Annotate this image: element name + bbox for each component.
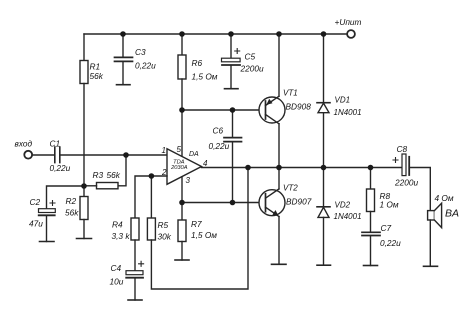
svg-text:C3: C3 — [135, 47, 146, 57]
node input wire — [32, 154, 54, 156]
wire VT1 base — [182, 109, 259, 111]
svg-text:DA: DA — [189, 151, 199, 158]
wire output rail — [202, 167, 403, 169]
wire pin2 — [135, 176, 167, 218]
resistor R2 — [80, 197, 88, 220]
svg-text:0,22u: 0,22u — [380, 238, 401, 248]
capacitor C6 — [224, 138, 242, 142]
resistor R1 — [80, 61, 88, 84]
svg-text:BD908: BD908 — [286, 101, 312, 111]
arrow VT1 emitter — [266, 99, 272, 105]
svg-text:R1: R1 — [90, 62, 101, 72]
svg-text:R2: R2 — [66, 196, 77, 206]
resistor R3 — [97, 183, 119, 189]
wire VD2 down — [323, 217, 325, 265]
wire C7 down — [370, 236, 372, 266]
wire node to R2 — [83, 186, 85, 197]
svg-text:56k: 56k — [65, 208, 79, 218]
ground R7 — [175, 259, 189, 261]
svg-text:R7: R7 — [191, 219, 202, 229]
wire C4 down — [134, 278, 136, 300]
wire R6 top — [181, 34, 183, 55]
svg-text:0,22u: 0,22u — [209, 141, 230, 151]
wire C3 top — [122, 34, 124, 57]
ground C3 — [117, 84, 131, 86]
svg-text:1,5 Ом: 1,5 Ом — [191, 230, 217, 240]
svg-text:3: 3 — [186, 176, 191, 185]
svg-text:C7: C7 — [381, 223, 392, 233]
capacitor C5 — [222, 58, 241, 62]
terminal input — [24, 151, 32, 159]
svg-text:5: 5 — [177, 145, 182, 154]
ground C7 — [364, 265, 378, 267]
wire speaker down — [429, 220, 431, 266]
svg-text:47u: 47u — [29, 219, 43, 229]
svg-text:BA: BA — [445, 207, 459, 219]
diode VD2 — [317, 206, 330, 208]
wire VT2 collector up — [278, 168, 280, 189]
wire C5 top — [230, 34, 232, 58]
svg-text:3,3 k: 3,3 k — [112, 231, 131, 241]
wire C2 down — [46, 216, 48, 242]
wire top rail — [84, 33, 347, 35]
svg-text:4 Ом: 4 Ом — [435, 193, 454, 203]
svg-text:1 Ом: 1 Ом — [380, 200, 399, 210]
svg-text:VT2: VT2 — [283, 184, 298, 193]
wire R4 to C4 — [134, 240, 136, 271]
svg-text:C2: C2 — [30, 197, 41, 207]
svg-text:2: 2 — [161, 168, 167, 177]
wire pin3 to VT2 base — [182, 202, 259, 204]
svg-text:1,5 Ом: 1,5 Ом — [192, 71, 218, 81]
arrow VT2 emitter — [272, 210, 278, 216]
svg-text:2200u: 2200u — [240, 64, 264, 74]
svg-text:56k: 56k — [107, 170, 121, 180]
op-amp U1 triangle — [167, 149, 202, 185]
svg-text:C6: C6 — [213, 126, 224, 136]
ground R2 — [77, 238, 92, 240]
svg-text:C4: C4 — [111, 263, 122, 273]
capacitor C2 — [39, 209, 56, 213]
ground VD2 — [317, 264, 331, 266]
wire node to C2 — [47, 186, 85, 209]
svg-text:C5: C5 — [245, 52, 256, 62]
wire pin5 — [181, 110, 183, 157]
svg-text:R5: R5 — [158, 220, 169, 230]
svg-text:2030A: 2030A — [170, 165, 188, 171]
svg-text:2200u: 2200u — [394, 177, 418, 187]
wire pin3 — [181, 177, 183, 203]
svg-text:1: 1 — [162, 146, 166, 155]
wire R1 column top — [83, 34, 85, 61]
capacitor C7 — [362, 232, 380, 235]
wire bias to pin1 node — [118, 155, 126, 186]
svg-text:BD907: BD907 — [286, 196, 312, 206]
capacitor C8 — [402, 154, 406, 176]
wire VD2 top — [323, 168, 325, 207]
svg-text:C8: C8 — [397, 144, 408, 154]
capacitor C4 — [126, 271, 143, 275]
wire R6 to node — [181, 79, 183, 110]
wire R5 feedback to output — [151, 168, 248, 290]
wire VT1 collector down — [278, 124, 280, 168]
wire R5 top — [150, 176, 152, 218]
transistor Q2 VT2 — [259, 190, 285, 216]
ground C2 — [40, 241, 55, 243]
resistor R5 — [147, 218, 155, 240]
svg-text:+Uпит: +Uпит — [335, 17, 362, 27]
wire VT2 emitter down — [278, 217, 280, 265]
wire R7 top — [181, 203, 183, 221]
speaker BA — [428, 211, 435, 220]
svg-text:30k: 30k — [158, 232, 172, 242]
wire VD1 down — [323, 113, 325, 168]
svg-text:C1: C1 — [50, 138, 61, 148]
diode VD1 — [317, 102, 330, 104]
svg-text:0,22u: 0,22u — [135, 60, 156, 70]
wire C6 down — [232, 142, 234, 203]
wire C3 down — [122, 62, 124, 85]
wire R1 to bias node — [83, 84, 85, 187]
wire R8 to C7 — [370, 212, 372, 233]
ground speaker — [424, 265, 438, 267]
svg-text:VT1: VT1 — [283, 89, 298, 98]
wire R2 down — [83, 220, 85, 239]
transistor Q1 VT1 — [259, 97, 285, 123]
junction dots — [120, 31, 126, 37]
svg-text:VD1: VD1 — [335, 95, 351, 104]
svg-text:10u: 10u — [110, 276, 124, 286]
wire VT1 emitter up — [278, 34, 280, 96]
svg-text:0,22u: 0,22u — [50, 163, 71, 173]
ground VT2 — [272, 263, 287, 265]
wire C5 down — [230, 65, 232, 88]
wire R8 top — [370, 168, 372, 190]
wire VD1 top — [323, 34, 325, 103]
capacitor C1 — [55, 147, 60, 163]
wire C8 to speaker — [409, 168, 430, 211]
capacitor C3 — [115, 57, 133, 61]
svg-text:VD2: VD2 — [335, 200, 351, 209]
svg-text:вход: вход — [15, 139, 33, 149]
svg-text:56k: 56k — [90, 71, 104, 81]
svg-text:R4: R4 — [112, 219, 123, 229]
svg-text:1N4001: 1N4001 — [334, 108, 362, 117]
wire C6 top — [232, 110, 234, 137]
wire C1 to pin1 — [61, 154, 168, 156]
resistor R4 — [131, 218, 139, 240]
ground C5 — [225, 88, 239, 90]
ground C4 — [128, 299, 142, 301]
wire R3 left to node — [84, 185, 97, 187]
resistor R8 — [367, 189, 375, 212]
svg-text:1N4001: 1N4001 — [334, 212, 362, 221]
wire R7 down — [181, 242, 183, 261]
svg-text:4: 4 — [203, 159, 208, 168]
resistor R7 — [178, 220, 186, 242]
svg-text:R6: R6 — [192, 58, 203, 68]
resistor R6 — [178, 55, 186, 79]
terminal +U — [347, 30, 355, 38]
svg-text:R3: R3 — [93, 170, 104, 180]
